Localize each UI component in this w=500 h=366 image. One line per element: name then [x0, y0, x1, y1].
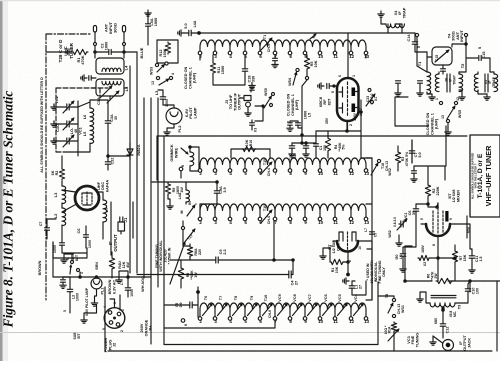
ground PL2 — [164, 124, 174, 135]
wire T3 right — [442, 307, 444, 310]
label 80V mixer — [421, 226, 471, 253]
svg-text:3: 3 — [113, 302, 117, 304]
scan fold line — [0, 332, 500, 334]
wire C22 — [107, 137, 130, 170]
inductor L4A 80 — [178, 182, 192, 205]
label VC3 FINE TUNING — [407, 333, 419, 348]
svg-text:L2: L2 — [53, 213, 58, 218]
svg-text:PL1: PL1 — [101, 288, 105, 295]
capacitor C4 27 — [289, 260, 299, 285]
wire vertical 302 — [301, 80, 307, 143]
inductor gimmick loop — [179, 146, 199, 178]
svg-text:80: 80 — [188, 201, 192, 205]
svg-text:2: 2 — [120, 330, 124, 332]
svg-text:L4: L4 — [124, 65, 129, 70]
node T4 a — [415, 33, 418, 36]
variable arrow C23 — [366, 89, 375, 107]
transformer row3 coils — [198, 204, 369, 225]
label UHF OSC 6AF4A — [96, 180, 109, 193]
svg-text:100: 100 — [476, 288, 480, 294]
svg-text:R1A: R1A — [388, 326, 392, 333]
caption Figure 8 T-101A D or E Tuner Schematic — [1, 91, 16, 329]
capacitor C5 3.9 — [175, 302, 192, 308]
svg-text:CH-6: CH-6 — [267, 44, 271, 52]
ground jack — [430, 336, 443, 345]
label T4 300 ANT INPUT — [447, 30, 465, 42]
resistor R7 15K — [452, 250, 467, 263]
svg-text:27: 27 — [295, 281, 299, 285]
svg-text:B+: B+ — [149, 325, 153, 331]
wire row3 line — [196, 203, 372, 205]
capacitor C15 left — [435, 55, 446, 71]
svg-text:WS2: WS2 — [388, 168, 392, 176]
svg-text:WS5: WS5 — [264, 88, 268, 96]
label SIT 1/2 6X8 MIXER — [448, 189, 460, 202]
svg-text:INPUT: INPUT — [459, 30, 464, 42]
svg-text:1500: 1500 — [221, 66, 225, 74]
svg-text:1000: 1000 — [53, 245, 57, 253]
svg-text:X1: X1 — [374, 97, 378, 101]
svg-text:VC8: VC8 — [293, 294, 297, 301]
svg-text:TRAP: TRAP — [452, 75, 456, 85]
connector J1 — [118, 217, 128, 231]
tube V1 6BC8 RF — [337, 78, 359, 121]
svg-text:WIRE: WIRE — [173, 148, 178, 159]
svg-text:3.9: 3.9 — [223, 187, 227, 192]
svg-text:680: 680 — [434, 318, 438, 324]
wire brown drop — [38, 242, 53, 277]
svg-text:L8: L8 — [124, 86, 129, 91]
trap X4 IF TRAP — [386, 7, 406, 27]
svg-text:470K 5%: 470K 5% — [405, 151, 409, 166]
resistor R8A 220 — [187, 246, 202, 257]
wire L7 — [98, 192, 103, 239]
svg-text:W54: W54 — [288, 77, 292, 86]
capacitor L5A 1000 — [146, 18, 159, 26]
svg-text:1: 1 — [435, 98, 439, 100]
node ant B — [123, 43, 126, 46]
capacitor C17 .22 — [289, 143, 297, 160]
svg-text:T-101A, D or E: T-101A, D or E — [477, 153, 484, 198]
svg-text:1.5: 1.5 — [479, 257, 483, 262]
svg-text:5: 5 — [66, 258, 70, 260]
pot R1A fine tuning — [384, 322, 399, 351]
svg-text:1000: 1000 — [88, 240, 92, 248]
ground cap L4 left — [81, 75, 96, 81]
svg-text:1000: 1000 — [130, 289, 134, 297]
svg-text:VC2: VC2 — [54, 95, 59, 103]
switch WS4 — [288, 68, 309, 86]
label T16 CH-6 row3 — [261, 205, 272, 224]
svg-text:VC9: VC9 — [278, 294, 282, 301]
wire bottom join — [105, 275, 497, 352]
svg-text:C15: C15 — [435, 55, 439, 61]
label BROWN uhf — [95, 262, 99, 270]
capacitor C9 2.2 — [216, 249, 227, 263]
tube bottom stem — [347, 121, 349, 131]
label ANT INPUT 300 — [104, 21, 118, 34]
transformer row4 coils — [198, 303, 369, 324]
svg-text:1000: 1000 — [105, 42, 109, 50]
svg-text:11: 11 — [333, 319, 338, 324]
label C1A — [96, 97, 101, 105]
antenna terminal B — [122, 26, 125, 33]
svg-text:BRN: BRN — [95, 262, 99, 270]
capacitor C12 680 — [434, 309, 450, 338]
label CLOSED ON CHANNEL 1 right — [426, 112, 439, 135]
resistor R8 68K 1W — [178, 260, 197, 288]
svg-text:5IT: 5IT — [77, 333, 81, 339]
svg-text:L3: L3 — [53, 192, 58, 197]
tube V2 6AF4A UHF OSC — [75, 186, 99, 210]
svg-text:TRAP: TRAP — [401, 7, 406, 18]
wire main box — [157, 136, 467, 238]
ground L5A — [145, 10, 151, 45]
svg-text:82T: 82T — [326, 98, 331, 105]
resistor X2 mixer — [418, 255, 430, 266]
wire mid caps — [292, 142, 316, 144]
capacitor C11 1.5 — [469, 249, 483, 273]
switch WS3 — [150, 62, 169, 75]
capacitor L1 27 — [343, 278, 366, 295]
inductor L4 loop — [95, 52, 129, 74]
wire ant bus — [95, 51, 124, 53]
svg-text:35V: 35V — [325, 117, 329, 124]
wire row4 left — [165, 304, 199, 306]
svg-text:10: 10 — [318, 319, 323, 324]
svg-text:L4A: L4A — [193, 20, 197, 27]
ground cap tube left — [318, 83, 337, 89]
ground PL1 — [91, 289, 97, 306]
tube V4 half 6X8 MIXER — [421, 203, 455, 236]
diode IN82A — [127, 143, 141, 160]
label CLOSED ON CHANNEL 1 mid — [287, 93, 300, 116]
antenna terminal A — [93, 26, 96, 33]
ground T3 — [417, 292, 430, 303]
svg-text:9: 9 — [449, 218, 453, 220]
capacitor C10 100 — [455, 281, 480, 303]
resistor R6 47K 2W — [427, 271, 454, 284]
resistor R10 box row2 — [231, 139, 270, 158]
svg-text:T28 C or D: T28 C or D — [58, 39, 63, 63]
label 6X8 SIT — [73, 333, 81, 340]
svg-text:6-8V PILOT LAMP: 6-8V PILOT LAMP — [85, 287, 89, 316]
capacitor C9A 3.9 — [200, 181, 227, 217]
svg-text:5: 5 — [102, 328, 106, 330]
svg-text:C7: C7 — [39, 222, 43, 227]
inductor L3 uhf — [53, 186, 66, 204]
wire row2 line — [190, 158, 372, 171]
inductor L8 loop — [96, 79, 129, 103]
svg-text:T10: T10 — [264, 295, 268, 302]
svg-text:X2: X2 — [423, 262, 427, 266]
svg-text:C15: C15 — [482, 52, 486, 59]
svg-text:JACK: JACK — [467, 338, 471, 349]
node T4 b — [464, 33, 467, 36]
svg-text:OUTPUT: OUTPUT — [113, 234, 118, 252]
svg-text:12: 12 — [349, 54, 354, 59]
svg-text:0.8-3.0: 0.8-3.0 — [393, 217, 397, 227]
svg-text:27: 27 — [359, 285, 363, 289]
ground 6x8 — [81, 305, 97, 323]
label T15 CH-6 row2 — [261, 159, 272, 176]
svg-text:2W: 2W — [434, 273, 438, 279]
svg-text:WS5: WS5 — [458, 110, 462, 118]
svg-text:T15: T15 — [263, 159, 267, 165]
capacitor C14 5 — [407, 33, 427, 52]
svg-text:470K: 470K — [80, 55, 85, 64]
resistor R3 470K — [395, 146, 408, 171]
tube V3 pins — [330, 245, 362, 262]
svg-text:PL2: PL2 — [178, 126, 182, 133]
label 6DC8 5% — [71, 253, 79, 262]
svg-text:10K: 10K — [335, 266, 339, 273]
wire mid links — [316, 122, 361, 132]
svg-text:300Ω: 300Ω — [112, 22, 117, 33]
capacitor 1000 L5 — [287, 111, 312, 132]
label 6.3V AC BROWN — [108, 279, 116, 294]
svg-text:VHF–UHF TUNER: VHF–UHF TUNER — [484, 145, 493, 207]
svg-text:Figure 8. T-101A, D or E Tuner: Figure 8. T-101A, D or E Tuner Schematic — [1, 91, 16, 329]
svg-text:2.2: 2.2 — [223, 249, 227, 254]
ground R2 top — [411, 166, 445, 182]
capacitor C uhf osc — [39, 219, 56, 239]
svg-text:0: 0 — [184, 324, 188, 326]
svg-text:5%: 5% — [342, 144, 346, 150]
svg-text:13: 13 — [364, 319, 369, 324]
resistor R4 40K — [325, 131, 345, 158]
label IF OUTPUT — [108, 234, 118, 252]
label SIT 1/2 6X8 OSC — [328, 240, 340, 253]
svg-text:WS2: WS2 — [388, 230, 392, 237]
svg-text:L4A: L4A — [178, 192, 182, 199]
svg-text:VC1: VC1 — [404, 213, 408, 220]
svg-text:10: 10 — [318, 54, 323, 59]
wire osc frame — [92, 88, 126, 100]
svg-text:13: 13 — [364, 220, 369, 225]
pilot lamp PL2 — [166, 107, 197, 133]
svg-text:(UHF): (UHF) — [193, 72, 197, 83]
resistor R2 220K — [425, 180, 440, 208]
tube V3 half 6X8 OSC — [333, 232, 372, 252]
svg-text:R10: R10 — [249, 140, 253, 146]
wire right mid verticals — [412, 126, 446, 166]
svg-text:5: 5 — [331, 91, 335, 93]
note all symbols letter D — [40, 77, 44, 173]
wire row1 ends — [200, 55, 366, 60]
capacitor C2 1000 — [101, 42, 112, 55]
label WH AGC — [141, 276, 145, 292]
inductor L2 uhf — [53, 208, 66, 226]
switch T5 CH-13 WS1 — [378, 282, 405, 318]
svg-text:WH AGC: WH AGC — [141, 276, 145, 292]
wire osc tube — [344, 241, 372, 300]
svg-text:12: 12 — [456, 97, 460, 101]
svg-text:1W: 1W — [194, 272, 198, 278]
svg-text:13: 13 — [441, 115, 445, 119]
svg-text:L7: L7 — [104, 207, 109, 212]
resistor R2 uhf — [51, 168, 65, 180]
power plug J2 — [102, 299, 125, 332]
label C23 trimmer — [366, 94, 378, 105]
svg-text:1: 1 — [352, 75, 356, 77]
ground cluster right a — [395, 81, 401, 96]
svg-text:1000: 1000 — [154, 18, 158, 26]
label CLOSED ON CHANNEL 1 UHF top — [184, 66, 197, 89]
inner dashed oscillator box — [56, 88, 108, 152]
capacitor C6 1000 — [76, 226, 92, 248]
wire row3 left frame — [183, 221, 190, 260]
wire row4 term7 drop — [165, 320, 276, 328]
capacitor C15 right — [466, 47, 490, 72]
switch 6X8 heater — [61, 254, 84, 277]
arrow M row3 — [180, 205, 195, 216]
svg-text:TRAP: TRAP — [492, 77, 496, 87]
svg-text:4W: 4W — [126, 262, 130, 268]
svg-text:C14: C14 — [407, 34, 411, 42]
tube V4 pins — [420, 218, 453, 246]
svg-text:12: 12 — [349, 220, 354, 225]
svg-text:OSC: OSC — [336, 243, 340, 251]
wire agc line — [170, 221, 294, 261]
svg-text:C1A: C1A — [96, 97, 101, 105]
variable capacitor VC1 LO-40 — [63, 126, 82, 147]
svg-text:180V: 180V — [353, 112, 357, 121]
pot T1A arrow — [181, 226, 195, 243]
capacitor C7 5.0 — [409, 140, 422, 163]
resistor R12 150K — [157, 40, 178, 63]
capacitor C1 150 — [314, 131, 327, 158]
svg-text:6.3V AC: 6.3V AC — [112, 280, 116, 294]
variable cap VC1 mixer — [388, 213, 408, 238]
svg-text:5: 5 — [478, 47, 482, 49]
svg-text:OUTPUT: OUTPUT — [237, 93, 242, 110]
capacitor I50 L6 — [395, 216, 416, 272]
svg-text:VC6: VC6 — [324, 294, 328, 301]
svg-text:M: M — [180, 210, 184, 213]
grounds right top — [427, 90, 490, 100]
ground C1C — [51, 121, 66, 127]
svg-text:R2: R2 — [55, 171, 59, 176]
label 6BC8 RF 82T — [318, 96, 331, 107]
svg-text:L7: L7 — [364, 228, 368, 232]
svg-text:13: 13 — [151, 81, 155, 85]
svg-text:WITH THE LETTER T: WITH THE LETTER T — [475, 163, 478, 188]
svg-text:11: 11 — [333, 220, 338, 225]
capacitor C18 330 — [242, 69, 255, 83]
svg-text:330: 330 — [252, 76, 256, 82]
inductor L5 — [82, 126, 94, 144]
label box VHF-UHF TUNER — [470, 135, 500, 217]
label N row1 — [310, 34, 316, 39]
label T1 CH-6 row1 — [261, 35, 272, 52]
connector J3 UHF IF — [224, 83, 255, 117]
filament wire y277 — [53, 276, 151, 278]
label T28 UHF TUNER — [58, 39, 74, 63]
capacitor L7 05 on 372 — [364, 228, 378, 237]
svg-text:6: 6 — [338, 75, 342, 77]
inductor L7 uhf — [103, 200, 109, 222]
svg-text:6: 6 — [330, 245, 334, 247]
resistor R11 1500 — [210, 62, 225, 74]
UHF tuner dashed boundary — [46, 34, 90, 300]
svg-text:L5: L5 — [308, 113, 312, 117]
svg-text:13: 13 — [364, 54, 369, 59]
svg-text:12: 12 — [349, 319, 354, 324]
wire bus bundle — [130, 52, 164, 345]
switch WS5 — [435, 97, 462, 135]
jack J4 IF OUTPUT — [443, 335, 472, 351]
wire antenna drops — [95, 32, 124, 52]
wire uhf bottom — [53, 242, 87, 258]
svg-text:CH-6: CH-6 — [267, 168, 271, 176]
svg-text:4: 4 — [103, 306, 107, 308]
wire row1 line — [199, 32, 388, 34]
row4 first riser — [197, 287, 200, 317]
svg-text:MIXER: MIXER — [456, 190, 460, 202]
wire J1 area — [111, 202, 133, 278]
svg-text:11: 11 — [333, 54, 338, 59]
label 35V 250V — [325, 107, 363, 124]
resistor R9 1800 1W — [152, 182, 217, 199]
svg-text:TUNING: TUNING — [415, 333, 419, 348]
svg-text:10K: 10K — [314, 60, 318, 67]
capacitor 5.0 row1 entry — [178, 20, 201, 36]
svg-text:5.0: 5.0 — [418, 152, 422, 157]
ground cluster right b — [417, 81, 423, 96]
svg-text:BROWN: BROWN — [38, 260, 42, 275]
svg-text:1W: 1W — [180, 187, 184, 193]
ground VC2 — [51, 104, 66, 110]
transformer T1 row1 coils — [198, 40, 369, 59]
row4 zero terminal — [181, 319, 188, 326]
svg-text:180V: 180V — [421, 244, 425, 253]
svg-text:15K: 15K — [463, 254, 467, 261]
wire T4 wires — [427, 37, 467, 74]
svg-text:ALL SYMBOLS SHOULD BE SUFFIXED: ALL SYMBOLS SHOULD BE SUFFIXED WITH LETT… — [40, 77, 44, 173]
svg-text:C5: C5 — [374, 233, 378, 237]
svg-text:J1: J1 — [123, 217, 128, 222]
svg-text:T7: T7 — [219, 296, 223, 300]
pilot lamp PL1 — [85, 278, 105, 316]
label 56K fine tuning — [155, 239, 186, 284]
svg-text:L6: L6 — [399, 255, 403, 259]
capacitor C1C — [55, 118, 74, 132]
svg-text:C22: C22 — [111, 158, 115, 165]
svg-text:(UHF): (UHF) — [295, 99, 299, 110]
svg-text:10: 10 — [318, 171, 323, 176]
svg-text:VC7: VC7 — [308, 294, 312, 301]
ground VC1 — [51, 138, 66, 144]
svg-text:5.0: 5.0 — [183, 23, 188, 28]
svg-text:11: 11 — [333, 171, 338, 176]
svg-text:VC5: VC5 — [338, 294, 342, 301]
svg-text:0: 0 — [181, 165, 185, 167]
svg-text:CH-6: CH-6 — [268, 310, 272, 318]
capacitor C6 39 — [408, 203, 429, 216]
wire X4 — [378, 11, 402, 33]
transformer row2 coils — [198, 158, 369, 176]
svg-text:8: 8 — [432, 244, 436, 246]
svg-text:1: 1 — [121, 309, 125, 311]
svg-text:WS3: WS3 — [150, 67, 154, 75]
svg-text:30: 30 — [114, 116, 118, 120]
svg-text:LAMP: LAMP — [192, 107, 197, 118]
switch T18 CH-13 row2 — [371, 159, 392, 175]
ground cap L2 — [60, 277, 70, 288]
svg-text:T8: T8 — [234, 296, 238, 300]
svg-text:1000: 1000 — [165, 99, 169, 107]
